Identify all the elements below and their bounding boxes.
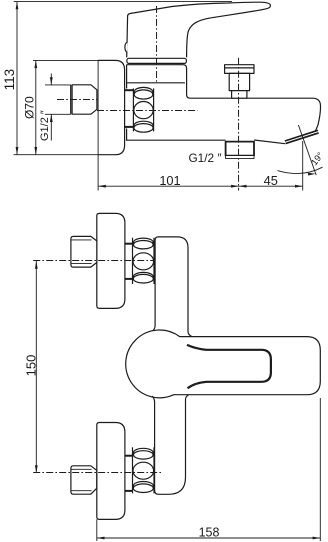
dimension 150 line <box>35 261 37 473</box>
diverter stem <box>229 73 249 90</box>
escutcheon left edge + dim 101 extension line <box>97 60 99 190</box>
handle slot (front view) <box>187 345 271 388</box>
lower union top ring <box>134 448 154 456</box>
spout underside right of outlet <box>254 140 285 144</box>
body column lower (front view) <box>152 395 189 494</box>
connector stub lower (side view) <box>124 126 133 128</box>
dim 158 arrow left <box>97 537 105 540</box>
diverter cap inner line <box>225 67 254 69</box>
svg-text:113: 113 <box>2 69 17 91</box>
dim dia70 arrow bottom <box>34 147 37 155</box>
wall nipple thread relief line <box>70 85 72 114</box>
dim G1/2 arrow upper <box>50 77 53 85</box>
angle arc <box>278 167 323 173</box>
dim 150 arrow top <box>35 261 38 269</box>
handle centerline <box>156 6 158 83</box>
diverter knob cap <box>225 65 254 74</box>
handle lever union (front view) <box>126 330 321 398</box>
shower outlet G1/2 (thick rect) <box>226 142 254 156</box>
shower outlet lip <box>226 156 254 159</box>
dim G1/2 line lower tail <box>50 114 52 140</box>
cartridge collar (side view) <box>127 58 186 63</box>
dim dia70 top extension line <box>33 59 98 61</box>
front inlet centerline bottom <box>33 472 161 474</box>
svg-text:150: 150 <box>24 355 39 377</box>
spout face bar (19 deg outlet plane) <box>285 130 318 141</box>
dim 113 top extension line <box>14 1 232 3</box>
svg-text:Ø70: Ø70 <box>22 96 36 119</box>
dim G1/2 line upper tail <box>50 74 52 85</box>
wall nipple centerline <box>57 99 98 101</box>
dim 45 arrow left <box>239 185 247 188</box>
dim G1/2 extension bottom <box>45 113 71 115</box>
dim G1/2 arrow lower <box>50 114 53 122</box>
upper escutcheon (front view) <box>97 213 125 308</box>
angle leg slanted 19deg <box>298 125 316 175</box>
body inner shoulder line <box>127 82 185 84</box>
handle indicator dot <box>125 42 128 52</box>
dimension line 101 and 45 <box>98 185 303 187</box>
dim 113 arrow top <box>16 2 19 10</box>
dim 158 extension right <box>319 398 321 541</box>
dim 150 arrow bottom <box>35 465 38 473</box>
body underside left of outlet <box>126 139 226 141</box>
diverter base <box>232 91 247 99</box>
lower union middle ring <box>133 462 154 479</box>
union middle ring (side view) <box>134 102 153 119</box>
upper connector stubs <box>125 243 133 245</box>
dimension dia70 line <box>35 60 37 154</box>
dim 45 arrow right <box>295 185 303 188</box>
svg-text:45: 45 <box>264 173 278 188</box>
front inlet centerline top <box>33 260 161 262</box>
lower union bottom ring <box>133 482 153 491</box>
upper union rings box <box>132 238 134 284</box>
body outline with spout (side view) <box>127 65 321 132</box>
dim 158 arrow right <box>313 537 321 540</box>
upper union middle ring <box>133 253 154 270</box>
svg-text:158: 158 <box>199 525 220 539</box>
svg-text:101: 101 <box>159 173 180 188</box>
upper nut facet lines <box>71 239 92 241</box>
dimension 158 line <box>97 537 320 539</box>
union bottom ring (side view) <box>134 121 153 130</box>
upper hex nut (front view) <box>71 236 97 267</box>
dim G1/2 extension top <box>45 84 71 86</box>
lower hex nut (front view) <box>71 466 97 494</box>
lower nut facet lines <box>71 468 92 470</box>
escutcheon plate (side view) <box>98 60 125 154</box>
angle arc arrowhead <box>308 173 316 176</box>
dimension 113 line <box>16 2 18 155</box>
diverter / outlet centerline <box>238 58 240 191</box>
lower connector stubs <box>125 455 133 457</box>
union rings box (side view) <box>132 88 134 131</box>
svg-text:G1/2 ″: G1/2 ″ <box>39 110 51 141</box>
dim 101 arrow right <box>231 185 239 188</box>
upper union bottom ring <box>133 272 153 281</box>
angle extension vertical + dim 45 extension <box>302 141 304 191</box>
connector stub upper (side view) <box>124 89 133 91</box>
dim dia70 arrow top <box>34 60 37 68</box>
body axis centerline <box>97 109 198 111</box>
svg-text:G1/2 ″: G1/2 ″ <box>188 151 221 165</box>
lower union rings box <box>132 447 134 493</box>
lower escutcheon (front view) <box>97 423 125 520</box>
upper union top ring <box>134 238 154 246</box>
body left edge upper segment (side view) <box>126 65 128 89</box>
dim 101 arrow left <box>98 185 106 188</box>
dim 113 / dia70 shared bottom extension line <box>14 154 99 156</box>
handle lever (side view) <box>127 2 271 57</box>
dim 113 arrow bottom <box>16 147 19 155</box>
dim 158 extension left <box>96 519 98 541</box>
wall nipple (side view) <box>72 85 97 114</box>
body column upper (front view) <box>151 237 192 337</box>
union top ring (side view) <box>134 87 153 96</box>
body left edge lower segment (side view) <box>126 129 128 141</box>
